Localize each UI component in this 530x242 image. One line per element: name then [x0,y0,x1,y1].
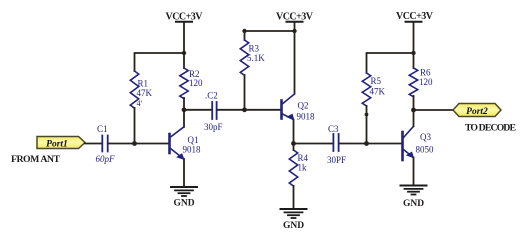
wire Q1 emitter down [183,159,185,187]
wire VCC3 down to R6 [413,22,415,68]
svg-text:C3: C3 [328,124,339,134]
svg-text:120: 120 [189,78,203,88]
wire VCC1 down to R2 [183,22,185,68]
svg-text:.C2: .C2 [205,91,218,101]
svg-text:GND: GND [403,199,424,209]
svg-text:47K: 47K [370,87,386,97]
wire R5 bottom to base wire [366,106,368,144]
svg-text:C1: C1 [97,124,108,134]
resistor R2 [180,68,188,99]
wire C1 to Q1 base [109,143,169,145]
svg-text:9018: 9018 [297,112,316,122]
wire Q2 emitter down [293,120,295,144]
resistor R6 [409,68,417,97]
junction R6/Port2/Q3 collector [411,108,416,113]
wire collector node to C2 [184,109,211,111]
wire collector node to Port2 [414,109,454,111]
svg-text:30pF: 30pF [204,122,223,132]
junction R3 bottom / base wire [242,107,247,112]
svg-text:R5: R5 [371,76,382,86]
transistor Q2 [282,94,295,120]
svg-text:Q2: Q2 [298,101,309,111]
junction VCC2/R3 branch [292,29,296,33]
junction Q2 emitter/C3/R4 [291,141,296,146]
port Port1 [37,137,85,150]
capacitor C1 [102,136,107,152]
wire branch to R5 top [367,53,414,73]
capacitor C3 [333,134,338,151]
junction C1/R1/Q1 base [132,141,137,146]
svg-text:Port1: Port1 [46,139,68,149]
svg-text:8050: 8050 [416,145,435,155]
junction dot R3 top corner [242,29,246,33]
power symbol VCC1 +3V [166,12,204,23]
svg-text:TO DECODE: TO DECODE [465,123,516,134]
svg-text:60pF: 60pF [96,154,116,164]
wire Q3 emitter down [413,158,415,186]
wire R4 top [293,144,295,151]
svg-text:120: 120 [419,77,433,87]
svg-text:VCC+3V: VCC+3V [396,11,434,22]
port Port2 [453,104,501,117]
ground GND (Q1) [171,187,197,196]
junction R5 bottom / base wire [364,141,369,146]
svg-text:R1: R1 [138,79,149,89]
transistor Q1 [170,127,185,159]
resistor R4 [289,150,297,186]
svg-text:R4: R4 [298,153,309,163]
svg-text:Q3: Q3 [420,132,431,142]
transistor Q3 [403,126,414,160]
junction VCC1/R1 branch [182,51,186,55]
svg-text:4': 4' [137,99,143,108]
wire R1 bottom to base node [134,108,136,144]
power symbol VCC3 +3V [396,11,434,22]
svg-text:FROM ANT: FROM ANT [11,154,60,165]
svg-text:9018: 9018 [183,145,202,155]
wire emitter node to C3 [294,143,333,145]
svg-text:GND: GND [173,199,194,209]
svg-text:Port2: Port2 [466,107,488,117]
wire R2 bottom to collector node [183,98,185,110]
wire branch to R3 top [245,31,295,40]
resistor R3 [240,40,248,75]
wire branch to R1 top [135,53,185,71]
svg-text:5.1K: 5.1K [247,53,265,63]
svg-text:47K: 47K [137,88,153,98]
wire C3 to Q3 base [340,143,402,145]
wire VCC2 down to Q2 collector [294,22,296,94]
wire Q1 collector up [183,110,185,127]
wire Q3 collector up [413,110,415,126]
stray junction dot on R5 wire [365,113,369,117]
svg-text:R6: R6 [420,68,431,78]
wire R3 bottom to base wire [244,75,246,110]
wire C2 to Q2 base [218,109,281,111]
svg-text:R3: R3 [249,44,260,54]
power symbol VCC2 +3V [276,12,314,23]
ground GND (R4) [281,209,307,218]
svg-text:30PF: 30PF [327,155,346,165]
wire R4 bottom to ground [293,186,295,209]
svg-text:1k: 1k [298,163,308,173]
capacitor C2 [212,102,216,119]
junction VCC3/R5 branch [411,51,415,55]
resistor R5 [362,73,370,106]
svg-text:GND: GND [283,221,304,231]
svg-text:Q1: Q1 [188,135,199,145]
junction R2/C2/Q1 collector [182,107,187,112]
wire Port1 to C1 [85,143,101,145]
wire R6 bottom to collector node [413,96,415,110]
resistor R1 [130,71,138,108]
ground GND (Q3) [401,186,427,195]
